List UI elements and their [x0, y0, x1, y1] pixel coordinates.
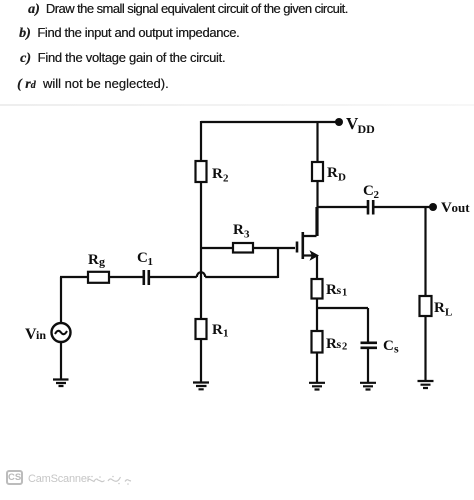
svg-text:2: 2	[223, 173, 229, 185]
label R3	[233, 222, 250, 241]
svg-text:D: D	[338, 172, 346, 184]
wire drain node to C2	[318, 206, 368, 208]
wire RL branch upper	[424, 207, 426, 296]
svg-text:R: R	[233, 222, 244, 238]
wire gate riser	[277, 247, 279, 278]
ground under Vin	[53, 380, 69, 387]
label Vout	[441, 200, 470, 216]
wire Rg to C1	[109, 276, 143, 278]
resistor RD	[312, 162, 323, 181]
svg-text:DD: DD	[358, 122, 376, 136]
label R2	[212, 166, 229, 185]
ground under RL	[418, 381, 434, 388]
resistor Rg	[88, 272, 109, 283]
label R1	[212, 322, 229, 340]
resistor Rs2	[312, 331, 323, 353]
capacitor Cs	[361, 343, 378, 348]
svg-text:2: 2	[374, 189, 380, 201]
wire Cs to ground	[367, 348, 369, 382]
svg-text:1: 1	[148, 256, 154, 268]
transistor Q1 drain lead	[303, 207, 317, 236]
wire input to Rg	[60, 276, 88, 278]
wire R2 branch upper	[200, 121, 202, 161]
svg-text:R: R	[327, 165, 338, 181]
svg-text:in: in	[36, 328, 46, 342]
faint scanner line	[0, 104, 474, 106]
wire gate bias rail	[201, 247, 295, 249]
svg-text:s: s	[337, 337, 342, 351]
label Cs	[383, 338, 399, 356]
svg-text:3: 3	[244, 229, 250, 241]
label Rg	[88, 252, 105, 269]
watermark CamScanner text	[28, 473, 90, 485]
svg-text:1: 1	[223, 328, 229, 340]
resistor R2	[196, 161, 207, 182]
resistor Rs1	[312, 279, 323, 299]
label VDD	[346, 114, 375, 136]
question line a	[28, 1, 348, 18]
svg-text:s: s	[337, 283, 342, 297]
wire R2 to R1 vertical	[200, 182, 202, 319]
wire C1 to hump	[149, 276, 197, 278]
wire Rs2 to ground	[316, 353, 318, 383]
source Vin circle	[52, 323, 71, 342]
label Rs2	[326, 336, 347, 353]
question line b	[19, 25, 239, 42]
svg-text:C: C	[137, 250, 148, 266]
resistor RL	[420, 296, 432, 316]
wire top rail	[201, 121, 336, 123]
wire Rs1 to Rs2	[316, 299, 318, 332]
label RL	[434, 300, 452, 319]
label Vin	[25, 326, 46, 343]
source Vin sine	[55, 331, 67, 334]
wire source to Rs1	[316, 256, 318, 280]
node VDD dot	[335, 118, 343, 126]
svg-text:R: R	[212, 166, 223, 182]
wire Cs branch	[367, 308, 369, 342]
wire R1 to ground	[200, 339, 202, 382]
svg-text:L: L	[445, 307, 452, 319]
transistor Q1 channel bar	[301, 232, 304, 259]
svg-text:s: s	[394, 342, 399, 356]
wire Vin vertical upper	[60, 277, 62, 323]
transistor Q1 source lead	[303, 254, 314, 256]
wire RD to drain	[316, 181, 318, 236]
svg-text:2: 2	[342, 342, 347, 353]
watermark arabic text	[86, 473, 132, 485]
question line rd note	[17, 76, 169, 93]
svg-text:V: V	[441, 200, 452, 216]
wire RD branch upper	[316, 121, 318, 162]
label C1	[137, 250, 153, 268]
wire hump to gate riser	[205, 276, 278, 278]
svg-text:R: R	[326, 336, 337, 352]
svg-text:R: R	[434, 300, 445, 316]
svg-text:R: R	[88, 252, 99, 268]
label RD	[327, 165, 346, 184]
label Rs1	[326, 282, 347, 299]
wire hump over divider	[197, 272, 205, 277]
wire source junction to Cs	[317, 307, 368, 309]
transistor Q1 source arrow	[310, 250, 320, 261]
svg-text:R: R	[212, 322, 223, 338]
node Vout dot	[429, 203, 437, 211]
ground under R1	[193, 383, 209, 390]
wire Vin to ground	[60, 342, 62, 379]
resistor R3	[233, 243, 253, 253]
svg-text:C: C	[383, 338, 394, 354]
wire RL to ground	[424, 316, 426, 380]
ground under Rs2	[309, 383, 325, 390]
wire C2 to Vout	[373, 206, 430, 208]
question line c	[20, 50, 225, 67]
ground under Cs	[360, 383, 376, 390]
watermark CamScanner logo	[6, 470, 23, 485]
svg-text:C: C	[363, 183, 374, 199]
resistor R1	[196, 319, 207, 339]
svg-text:out: out	[452, 200, 471, 215]
capacitor C2	[368, 200, 373, 215]
transistor Q1 gate bar	[296, 242, 299, 253]
svg-text:R: R	[326, 282, 337, 298]
svg-text:1: 1	[342, 288, 347, 299]
capacitor C1	[144, 270, 149, 285]
svg-text:g: g	[99, 255, 105, 269]
label C2	[363, 183, 380, 201]
